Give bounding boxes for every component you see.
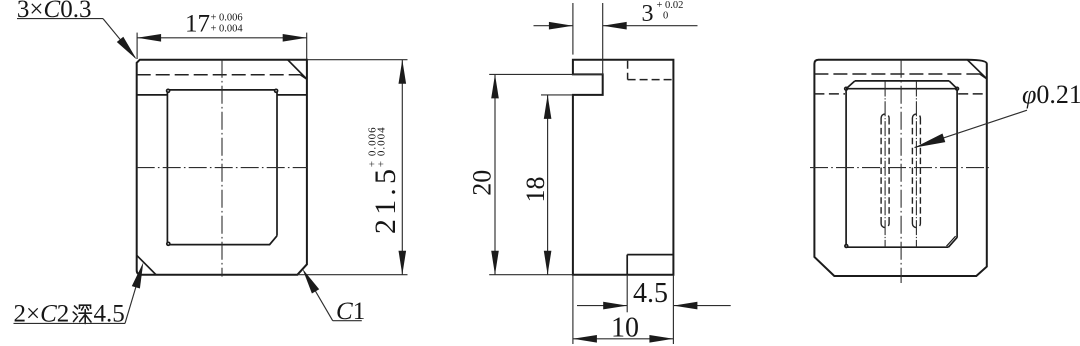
back view pocket fillet bottom-left xyxy=(845,245,848,248)
back view pocket upper ledge edge xyxy=(846,88,957,90)
svg-text:20: 20 xyxy=(468,170,497,196)
dim 4.5 extension line xyxy=(626,275,628,313)
dim 3 dimension line xyxy=(534,25,573,27)
label 3xC0.3 leader xyxy=(17,18,103,20)
label 3xC0.3 leader arrowhead xyxy=(117,37,137,60)
front view outer outline xyxy=(137,60,307,275)
dim 4.5 arrowheads xyxy=(603,302,627,310)
dim 21.5 dimension line xyxy=(401,60,403,275)
dim 17 dimension line xyxy=(137,37,307,39)
front view top-right C2 chamfer line xyxy=(288,60,307,79)
svg-text:21.5: 21.5 xyxy=(369,165,402,234)
dim 17 arrowheads xyxy=(137,34,161,42)
dim 3 arrowheads xyxy=(549,22,573,30)
front view pocket outline xyxy=(167,90,277,245)
dim 18 extension line top xyxy=(541,94,573,96)
back view pocket top-left corner bevel xyxy=(846,81,855,89)
slot hole 2 centerline xyxy=(915,82,917,248)
front view horizontal centerline xyxy=(137,167,307,169)
side view bottom-right chamfer pocket edge xyxy=(627,254,673,256)
back view pocket top-right corner bevel xyxy=(949,81,957,89)
svg-text:18: 18 xyxy=(521,177,550,203)
back view horizontal centerline xyxy=(810,167,991,169)
dim 10 extension lines xyxy=(572,275,574,344)
back view hidden edge bend at chamfer xyxy=(980,74,987,79)
svg-text:10: 10 xyxy=(611,313,639,344)
slot hole 1 hidden outline xyxy=(881,114,889,228)
dim 20 dimension line xyxy=(494,74,496,274)
svg-text:+ 0.004: + 0.004 xyxy=(376,126,388,167)
label phi0.21 leader xyxy=(915,110,1028,147)
back view pocket bottom-right chamfer xyxy=(948,237,957,247)
svg-text:0: 0 xyxy=(663,11,668,22)
dim 18 dimension line xyxy=(547,95,549,275)
svg-text:3×C0.3: 3×C0.3 xyxy=(17,0,92,23)
back view pocket fillet top-left xyxy=(845,87,848,90)
label 2xC2deep4.5 leader xyxy=(14,322,126,324)
svg-text:+ 0.02: + 0.02 xyxy=(657,0,684,11)
label 2xC2deep4.5 CJK glyph Shen xyxy=(73,305,91,323)
dim 4.5 dimension line xyxy=(577,305,627,307)
front view pocket fillet top-left xyxy=(167,89,170,92)
dim 20/18 extension line bottom xyxy=(489,274,573,276)
dim 21.5 arrowheads xyxy=(399,60,407,84)
label C1 leader xyxy=(333,320,362,322)
front view pocket fillet top-right xyxy=(275,89,278,92)
back view vertical centerline xyxy=(900,60,902,283)
dim 18 arrowheads xyxy=(544,95,552,119)
svg-text:+ 0.004: + 0.004 xyxy=(211,23,244,34)
back view hidden step edge (dashed) xyxy=(814,93,845,95)
svg-text:3: 3 xyxy=(642,1,654,27)
back view pocket fillet top-right xyxy=(956,87,959,90)
svg-text:φ0.21: φ0.21 xyxy=(1022,80,1080,109)
front view pocket fillet bottom-left xyxy=(167,242,170,245)
back view pocket bottom edge xyxy=(847,246,949,248)
slot hole 1 centerline xyxy=(884,82,886,248)
label 2xC2deep4.5 leader arrowhead xyxy=(132,262,144,288)
dim 21.5 extension lines xyxy=(307,59,408,61)
dim 17 extension lines xyxy=(136,33,138,59)
side view hidden chamfer pocket (dashed) xyxy=(627,61,629,80)
dim 10 dimension line xyxy=(573,338,674,340)
front view bottom-left C2 chamfer line xyxy=(137,255,156,274)
front view vertical centerline xyxy=(221,60,223,277)
back view top-right C2 chamfer line xyxy=(967,60,987,79)
dim 18 text xyxy=(521,177,550,203)
dim 10 arrowheads xyxy=(573,335,597,343)
back view hidden edge (dashed) xyxy=(814,73,980,75)
label C1 leader arrowhead xyxy=(303,269,320,294)
back view pocket side walls xyxy=(845,90,847,245)
dim 20 extension line top xyxy=(489,73,603,75)
back view pocket opening top edge xyxy=(855,80,949,82)
front view step edge right segment xyxy=(277,94,307,96)
svg-text:17: 17 xyxy=(185,11,210,38)
svg-text:+ 0.006: + 0.006 xyxy=(211,13,243,24)
dim 20 text xyxy=(468,170,497,196)
front view hidden edge bend at chamfer xyxy=(300,75,307,80)
front view hidden edge (dashed) xyxy=(137,74,301,76)
back view outline xyxy=(814,60,986,276)
side view outline xyxy=(573,60,674,275)
svg-text:4.5: 4.5 xyxy=(633,278,668,309)
dim 20 arrowheads xyxy=(491,74,499,98)
slot hole 2 hidden outline xyxy=(912,114,920,228)
front view step edge left segment xyxy=(137,94,168,96)
dim 3 extension lines xyxy=(572,3,574,55)
label phi0.21 leader arrowhead xyxy=(915,134,946,148)
dim 21.5 text xyxy=(366,126,402,234)
